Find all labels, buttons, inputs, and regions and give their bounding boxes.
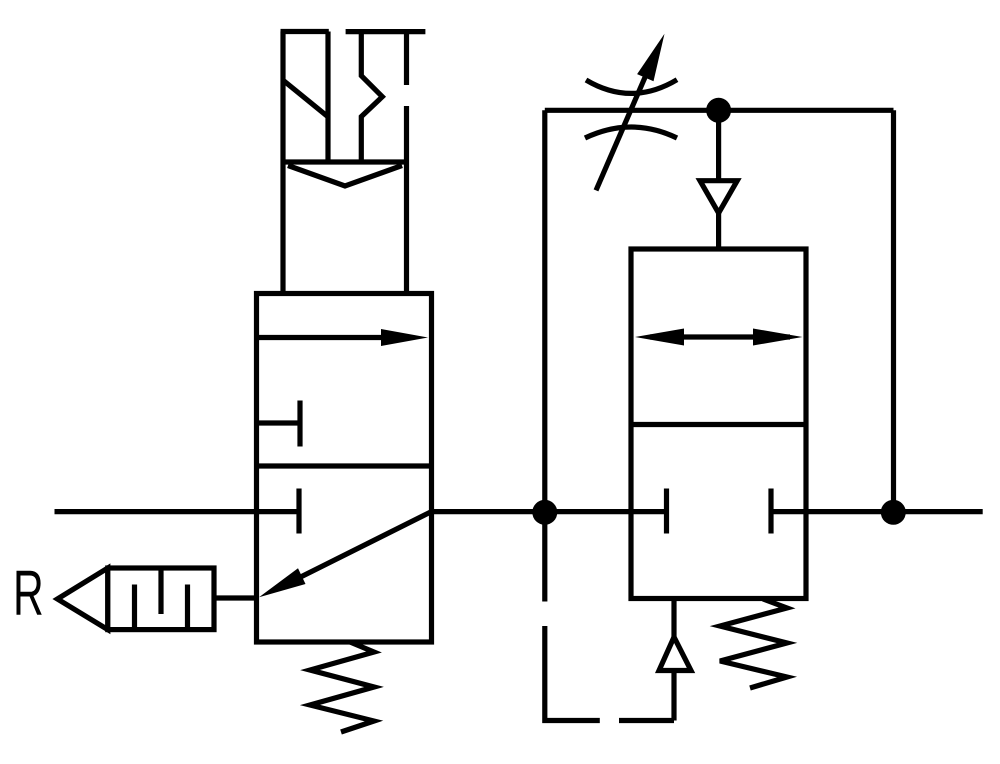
svg-text:R: R: [13, 557, 44, 629]
